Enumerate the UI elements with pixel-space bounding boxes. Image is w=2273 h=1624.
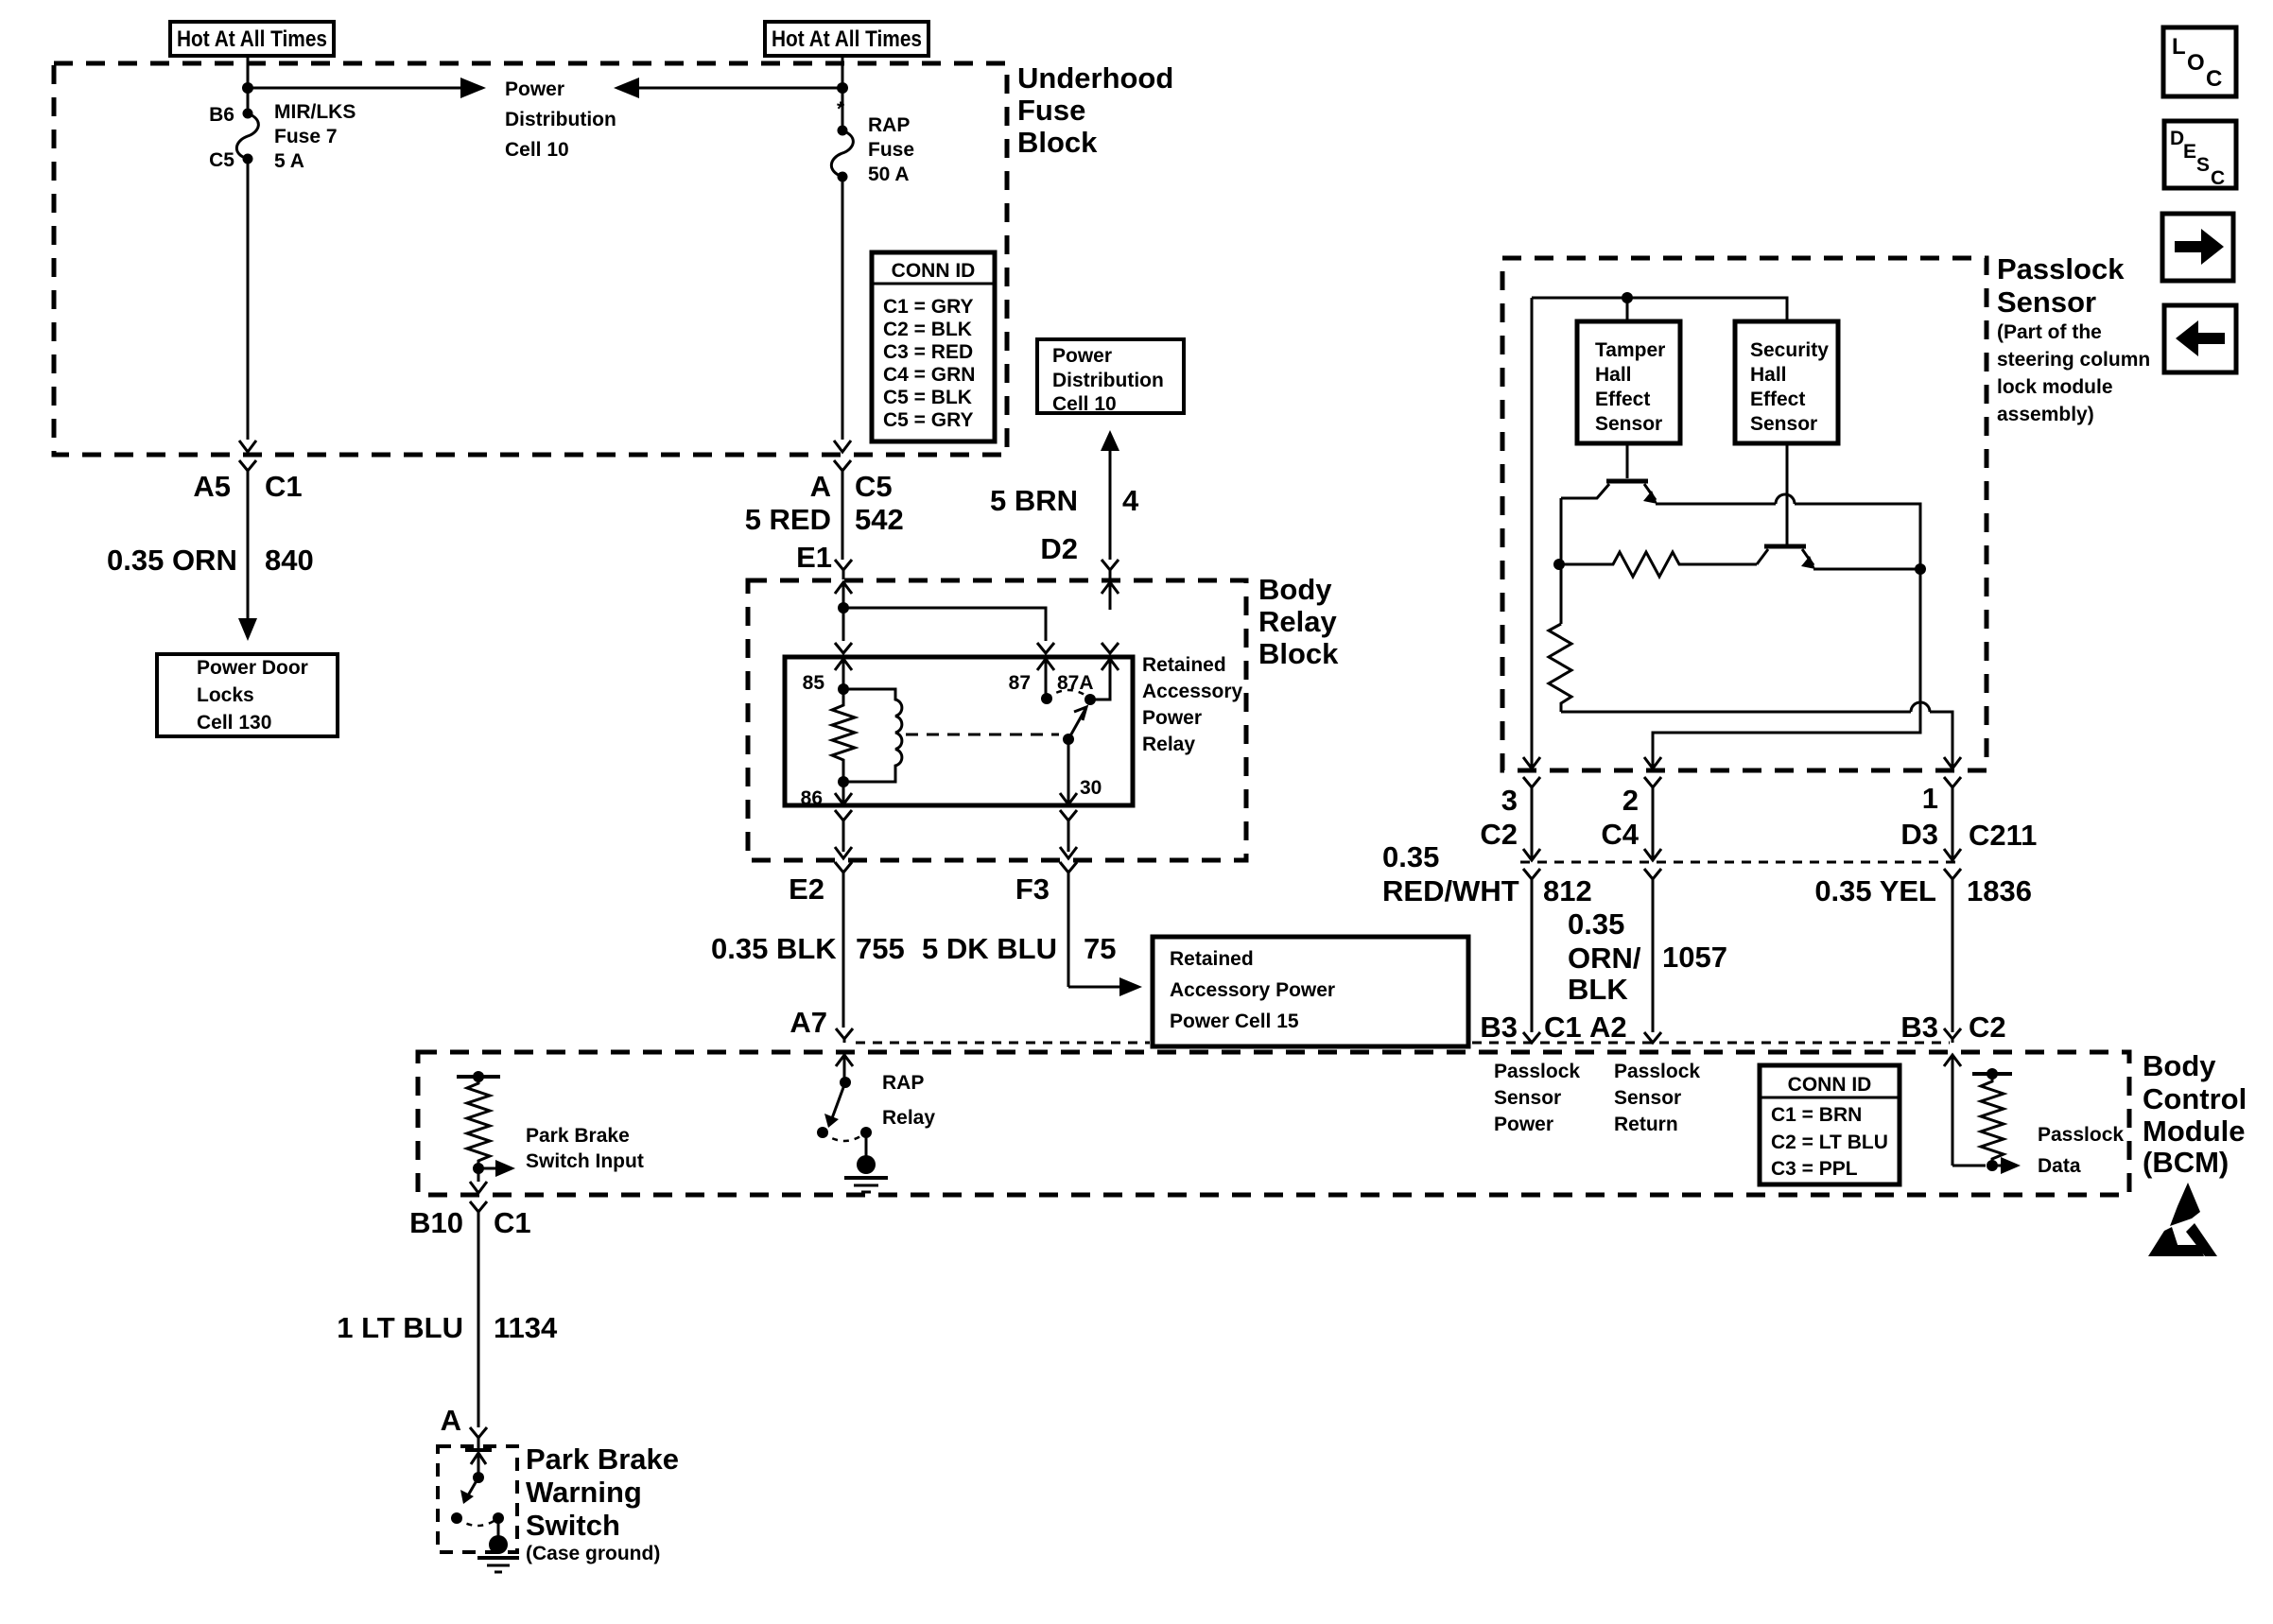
wire to Power Distribution (right arrow) [248, 78, 486, 98]
svg-text:C: C [2206, 66, 2222, 92]
svg-text:C2 = BLK: C2 = BLK [883, 319, 972, 340]
conn id box BCM [1760, 1065, 1900, 1184]
svg-text:C1: C1 [1544, 1011, 1582, 1044]
ground (park brake switch case) [477, 1535, 519, 1572]
label Retained Accessory Power Relay [1142, 654, 1243, 755]
svg-text:Park Brake: Park Brake [526, 1443, 679, 1476]
svg-text:812: 812 [1543, 874, 1592, 907]
wire pin 30 down [1067, 739, 1070, 803]
label Passlock Data [2038, 1124, 2124, 1177]
ground (RAP relay case) [844, 1155, 888, 1192]
icon DESC [2164, 121, 2236, 189]
svg-text:Data: Data [2038, 1155, 2081, 1177]
svg-text:Hot At All Times: Hot At All Times [177, 26, 327, 52]
svg-text:L: L [2172, 34, 2186, 60]
wire bottom run to pin 1 [1561, 711, 1911, 714]
RAP relay (BCM) [817, 1077, 872, 1157]
park brake warning switch contact plate [465, 1448, 492, 1452]
svg-text:C1: C1 [494, 1206, 531, 1239]
svg-text:542: 542 [855, 503, 904, 536]
connector cup pin 3 [1523, 777, 1540, 858]
svg-text:5 BRN: 5 BRN [990, 484, 1078, 517]
svg-text:C211: C211 [1969, 819, 2037, 852]
svg-text:1134: 1134 [494, 1311, 558, 1344]
svg-text:Passlock: Passlock [1997, 252, 2125, 285]
svg-text:*: * [837, 98, 845, 120]
svg-text:Retained: Retained [1142, 654, 1226, 676]
svg-text:RED/WHT: RED/WHT [1382, 874, 1519, 907]
wire junction to 87 branch [843, 608, 1046, 641]
svg-text:Tamper: Tamper [1595, 339, 1665, 361]
svg-text:Locks: Locks [197, 684, 254, 706]
connector arrow passlock exit pin 2 [1644, 757, 1661, 769]
arrow passlock data [1992, 1157, 2021, 1174]
svg-text:Block: Block [1258, 637, 1339, 670]
svg-text:5 DK BLU: 5 DK BLU [922, 932, 1057, 965]
label Body Relay Block [1258, 573, 1339, 670]
wire 542 down [842, 480, 844, 560]
wire park brake to B10 [477, 1168, 480, 1182]
svg-text:RAP: RAP [868, 114, 910, 136]
svg-text:Fuse: Fuse [1017, 94, 1085, 127]
ESD symbol [2148, 1183, 2217, 1256]
label Body Control Module (BCM) [2143, 1049, 2247, 1179]
connector cup D2 [1102, 560, 1119, 579]
wire pin 3 rail [1531, 298, 1534, 768]
connector cup pin 3 below C211 [1523, 869, 1540, 1032]
label Park Brake Warning Switch [526, 1443, 679, 1542]
svg-text:Power: Power [1142, 707, 1202, 729]
connector cup A7 [836, 1028, 853, 1043]
resistor R3 (park brake pull-up) [457, 1071, 500, 1168]
connector arrow at BCM exit (B10) [470, 1182, 487, 1193]
wire security sensor to Q2 [1786, 443, 1789, 544]
wire junction down [1653, 569, 1920, 768]
label 0.35 ORN/BLK [1568, 907, 1641, 1006]
svg-text:ORN/: ORN/ [1568, 942, 1641, 975]
park brake warning switch dashed box [438, 1446, 517, 1552]
transistor Q1 (tamper) [1561, 443, 1657, 504]
svg-text:C: C [2211, 167, 2225, 189]
node collector/resistor junction [1553, 559, 1565, 570]
relay switch pivot dot [1063, 734, 1074, 745]
connector cup at relay pin 87A [1102, 643, 1119, 653]
svg-text:87A: 87A [1057, 672, 1094, 694]
svg-text:Effect: Effect [1750, 389, 1805, 410]
svg-text:4: 4 [1122, 484, 1139, 517]
passlock sensor dashed box [1502, 258, 1987, 770]
connector cup pin 2 below C211 [1644, 869, 1661, 1032]
svg-text:85: 85 [803, 672, 825, 694]
wire 87A to top [1090, 659, 1110, 700]
label Park Brake Switch Input [526, 1125, 644, 1172]
hot at all times box 2 [765, 22, 928, 56]
arrow park brake switch input [478, 1160, 515, 1177]
svg-text:1: 1 [1922, 782, 1938, 815]
body control module dashed box [418, 1052, 2129, 1195]
svg-text:Sensor: Sensor [1750, 413, 1817, 435]
svg-text:2: 2 [1622, 784, 1639, 817]
connector cup B10/C1 [470, 1201, 487, 1221]
underhood fuse block dashed box [54, 63, 1007, 455]
svg-text:0.35: 0.35 [1382, 840, 1439, 873]
svg-text:Sensor: Sensor [1614, 1087, 1681, 1109]
wire Q1 collector rail [1560, 498, 1563, 624]
svg-text:E1: E1 [796, 541, 832, 574]
svg-text:Control: Control [2143, 1082, 2247, 1115]
svg-text:A2: A2 [1589, 1011, 1627, 1044]
connector arrow into body relay block (E1) [835, 582, 852, 608]
connector arrow into relay pin 85 [835, 659, 852, 689]
connector arrow into relay pin 87 [1037, 659, 1054, 699]
hot at all times box 1 [170, 22, 334, 56]
wire passlock top bus [1532, 298, 1787, 321]
wire Q1 emitter run [1656, 503, 1776, 506]
resistor R1 (horizontal) [1559, 552, 1757, 577]
svg-text:C2: C2 [1969, 1011, 2006, 1044]
svg-text:C4: C4 [1601, 818, 1639, 851]
conn id box underhood [872, 252, 995, 441]
relay actuation dashed link [906, 734, 1059, 736]
svg-text:Switch Input: Switch Input [526, 1150, 644, 1172]
svg-text:Module: Module [2143, 1114, 2246, 1148]
connector cup F3 [1060, 862, 1077, 987]
body relay block dashed box [748, 580, 1246, 860]
svg-text:C2 = LT BLU: C2 = LT BLU [1771, 1132, 1888, 1153]
node junction above relay coil [838, 602, 849, 613]
svg-text:B10: B10 [409, 1206, 463, 1239]
svg-text:Power Cell 15: Power Cell 15 [1170, 1011, 1299, 1032]
wire coil feed down [842, 608, 845, 641]
wire RAP fuse down to C5 exit [842, 177, 844, 440]
wire Q1 emitter run to corner [1795, 504, 1920, 569]
relay switch arm [1068, 707, 1086, 739]
connector cup A2 [1644, 1032, 1661, 1043]
svg-text:Effect: Effect [1595, 389, 1650, 410]
svg-text:D3: D3 [1900, 818, 1938, 851]
node passlock data junction [1987, 1160, 1998, 1171]
connector arrow at underhood exit (RAP) [834, 441, 851, 452]
svg-text:MIR/LKS: MIR/LKS [274, 101, 356, 123]
svg-text:1836: 1836 [1967, 874, 2032, 907]
svg-text:1057: 1057 [1662, 941, 1727, 974]
svg-text:Warning: Warning [526, 1476, 642, 1509]
svg-text:Cell 10: Cell 10 [505, 139, 569, 161]
connector arrow pin 1 at C211 [1944, 849, 1961, 860]
connector line BCM C1 (dashed) [856, 1042, 1150, 1045]
wire C2 to passlock data [1952, 1165, 1986, 1167]
connector arrow into body relay block (D2) [1102, 582, 1119, 610]
svg-text:CONN ID: CONN ID [1788, 1074, 1872, 1096]
svg-text:C1 = BRN: C1 = BRN [1771, 1104, 1862, 1126]
svg-text:C5 = GRY: C5 = GRY [883, 409, 974, 431]
arrow into retained accessory power cell [1119, 977, 1142, 996]
svg-text:C5 = BLK: C5 = BLK [883, 387, 972, 408]
power door locks cell 130 box [157, 654, 338, 736]
svg-text:Cell 10: Cell 10 [1052, 393, 1117, 415]
node junction at B6 feed [242, 82, 253, 94]
svg-text:C5: C5 [855, 470, 893, 503]
wire from Hot At All Times 1 [247, 56, 250, 113]
svg-text:C3 = PPL: C3 = PPL [1771, 1158, 1858, 1180]
connector arrow into BCM (A7) [836, 1055, 853, 1082]
svg-text:S: S [2196, 154, 2210, 176]
svg-text:Relay: Relay [1142, 734, 1195, 755]
fuse RAP [831, 126, 853, 182]
svg-text:Distribution: Distribution [1052, 370, 1164, 391]
svg-text:5 RED: 5 RED [745, 503, 831, 536]
svg-text:C5: C5 [209, 149, 234, 171]
svg-text:CONN ID: CONN ID [892, 260, 976, 282]
svg-text:Power Door: Power Door [197, 657, 308, 679]
label 0.35 RED/WHT [1382, 840, 1519, 907]
connector cup at relay pin 87 [1037, 643, 1054, 653]
connector arrow at underhood exit (A5) [239, 441, 256, 452]
svg-text:50 A: 50 A [868, 164, 910, 185]
svg-text:755: 755 [856, 932, 905, 965]
connector arrow at body relay block exit (E2) [835, 847, 852, 858]
label Passlock Sensor Power [1494, 1061, 1580, 1135]
svg-text:0.35 YEL: 0.35 YEL [1814, 874, 1936, 907]
arrow into Power Door Locks [238, 618, 257, 641]
svg-text:Park Brake: Park Brake [526, 1125, 630, 1147]
svg-text:A: A [810, 470, 831, 503]
label RAP Fuse 50 A [868, 114, 914, 185]
wire hop over junction drop [1911, 702, 1930, 712]
connector cup pin 1 below C211 [1944, 869, 1961, 1032]
connector cup at relay pin 85 [835, 643, 852, 653]
svg-text:840: 840 [265, 544, 314, 577]
svg-text:(Part of the: (Part of the [1997, 321, 2102, 343]
connector arrow passlock exit pin 3 [1523, 757, 1540, 769]
svg-text:5 A: 5 A [274, 150, 304, 172]
retained accessory power cell 15 box [1153, 937, 1468, 1046]
connector cup A5/C1 [239, 460, 256, 480]
svg-text:lock module: lock module [1997, 376, 2113, 398]
RAP relay box [785, 657, 1133, 805]
relay coil [843, 689, 902, 782]
label Underhood Fuse Block [1017, 61, 1173, 159]
node park brake switch input [473, 1163, 484, 1174]
svg-text:Hall: Hall [1750, 364, 1787, 386]
svg-text:Relay: Relay [1258, 605, 1337, 638]
relay coil pin dots [838, 683, 849, 695]
arrow up into power distribution box [1101, 430, 1119, 451]
svg-text:Return: Return [1614, 1114, 1678, 1135]
wire hop over security lead [1776, 494, 1795, 504]
resistor R4 (passlock data pull-up) [1972, 1068, 2012, 1166]
connector arrow pin 30 at relay box bottom [1060, 793, 1077, 804]
svg-text:1 LT BLU: 1 LT BLU [337, 1311, 463, 1344]
connector arrow passlock exit pin 1 [1944, 757, 1961, 769]
security hall effect sensor box [1735, 321, 1838, 443]
svg-text:assembly): assembly) [1997, 404, 2094, 425]
svg-text:Hot At All Times: Hot At All Times [772, 26, 922, 52]
svg-text:Power: Power [1494, 1114, 1553, 1135]
label RAP Relay [882, 1072, 935, 1129]
relay coil resistor [832, 689, 855, 782]
tamper hall effect sensor box [1577, 321, 1680, 443]
connector arrow pin 86 at relay box bottom [835, 793, 852, 804]
svg-text:B3: B3 [1900, 1011, 1938, 1044]
connector cup pin 2 [1644, 777, 1661, 858]
connector line C211 (dashed) [1520, 861, 1959, 864]
svg-text:Cell 130: Cell 130 [197, 712, 271, 734]
wire 840 down [247, 480, 250, 620]
label Passlock Sensor Return [1614, 1061, 1700, 1135]
connector arrow into relay pin 87A [1102, 659, 1119, 670]
node emitters junction [1915, 563, 1926, 575]
svg-text:Security: Security [1750, 339, 1829, 361]
svg-text:Distribution: Distribution [505, 109, 616, 130]
svg-text:steering column: steering column [1997, 349, 2150, 371]
svg-text:86: 86 [801, 787, 823, 809]
svg-text:Underhood: Underhood [1017, 61, 1173, 95]
svg-text:Body: Body [1258, 573, 1332, 606]
wire 5 BRN up [1109, 448, 1112, 560]
connector arrow into BCM (C2) [1944, 1055, 1961, 1166]
resistor R2 (vertical) [1549, 624, 1571, 712]
connector arrow pin 3 at C211 [1523, 849, 1540, 860]
svg-text:C2: C2 [1480, 818, 1518, 851]
svg-text:RAP: RAP [882, 1072, 924, 1094]
svg-text:Hall: Hall [1595, 364, 1632, 386]
wire Q2 emitter to junction [1813, 568, 1920, 571]
svg-text:F3: F3 [1015, 872, 1050, 906]
node junction at RAP feed [837, 82, 848, 94]
wire 75 to retained accessory power [1068, 986, 1121, 989]
svg-text:D: D [2170, 128, 2184, 149]
wire corner to pin 1 [1930, 712, 1952, 768]
icon forward arrow [2162, 214, 2233, 281]
icon back arrow [2164, 305, 2236, 372]
svg-text:Passlock: Passlock [2038, 1124, 2124, 1146]
wire pin 86 down [842, 782, 845, 803]
icon LOC [2163, 27, 2236, 96]
wire 1134 down [477, 1221, 480, 1427]
wire from RAP feed to Power Distribution (left arrow) [614, 78, 842, 98]
svg-text:A: A [441, 1404, 461, 1437]
label (Part of the steering column lock module assembly) [1997, 321, 2150, 425]
svg-text:O: O [2187, 50, 2205, 76]
label Power Distribution Cell 10 (left) [505, 78, 616, 161]
connector cup A/C5 [834, 460, 851, 480]
svg-text:30: 30 [1080, 777, 1102, 799]
svg-text:Power: Power [505, 78, 564, 100]
svg-text:Power: Power [1052, 345, 1112, 367]
svg-text:BLK: BLK [1568, 973, 1628, 1006]
svg-text:A5: A5 [193, 470, 231, 503]
connector cup B3/C1 [1523, 1032, 1540, 1043]
svg-text:B3: B3 [1480, 1011, 1518, 1044]
svg-text:C1: C1 [265, 470, 303, 503]
node junction tamper feed [1622, 292, 1633, 303]
connector arrow at body relay block exit (F3) [1060, 847, 1077, 858]
svg-text:3: 3 [1501, 784, 1518, 817]
svg-text:87: 87 [1009, 672, 1031, 694]
svg-text:0.35 ORN: 0.35 ORN [107, 544, 237, 577]
svg-text:Accessory Power: Accessory Power [1170, 979, 1335, 1001]
svg-text:Block: Block [1017, 126, 1098, 159]
svg-text:B6: B6 [209, 104, 234, 126]
connector cup A [470, 1427, 487, 1449]
power distribution cell 10 box (middle) [1037, 339, 1184, 415]
svg-text:(Case ground): (Case ground) [526, 1543, 660, 1564]
connector cup below relay (86) [835, 810, 852, 852]
svg-text:E: E [2183, 141, 2196, 163]
relay pin 87 dot [1041, 693, 1052, 704]
svg-text:E2: E2 [789, 872, 824, 906]
fuse F7 (MIR/LKS) [236, 109, 258, 164]
connector arrow pin 2 at C211 [1644, 849, 1661, 860]
svg-text:Fuse: Fuse [868, 139, 914, 161]
park brake warning switch [451, 1453, 504, 1537]
wire tamper feed down [1626, 298, 1629, 321]
svg-text:0.35 BLK: 0.35 BLK [711, 932, 837, 965]
label Passlock Sensor [1997, 252, 2125, 319]
svg-text:Passlock: Passlock [1614, 1061, 1700, 1082]
wire MIR/LKS fuse down to A5 [247, 159, 250, 440]
relay pin 87A dot [1084, 694, 1096, 705]
connector cup E1 [835, 560, 852, 579]
connector cup pin 1 [1944, 777, 1961, 858]
connector cup B3/C2 [1944, 1028, 1961, 1043]
svg-text:Retained: Retained [1170, 948, 1254, 970]
label MIR/LKS Fuse 7 5 A [274, 101, 356, 172]
svg-text:Switch: Switch [526, 1509, 620, 1542]
svg-text:Sensor: Sensor [1997, 285, 2096, 319]
svg-text:(BCM): (BCM) [2143, 1146, 2229, 1179]
relay contact dashed arc 87-87A [1047, 690, 1090, 699]
connector cup E2 [835, 862, 852, 1028]
svg-text:0.35: 0.35 [1568, 907, 1624, 941]
connector cup below relay (30) [1060, 810, 1077, 852]
svg-text:A7: A7 [789, 1006, 827, 1039]
svg-text:D2: D2 [1040, 532, 1078, 565]
svg-text:Sensor: Sensor [1494, 1087, 1561, 1109]
svg-text:Sensor: Sensor [1595, 413, 1662, 435]
svg-text:Passlock: Passlock [1494, 1061, 1580, 1082]
transistor Q2 (security) [1757, 546, 1815, 569]
svg-text:75: 75 [1084, 932, 1116, 965]
wire from Hot At All Times 2 [842, 56, 844, 130]
svg-text:Body: Body [2143, 1049, 2216, 1082]
svg-text:Accessory: Accessory [1142, 681, 1243, 702]
svg-text:C3 = RED: C3 = RED [883, 341, 973, 363]
svg-text:Fuse 7: Fuse 7 [274, 126, 338, 147]
svg-text:Relay: Relay [882, 1107, 935, 1129]
svg-text:C4 = GRN: C4 = GRN [883, 364, 975, 386]
svg-text:C1 = GRY: C1 = GRY [883, 296, 974, 318]
